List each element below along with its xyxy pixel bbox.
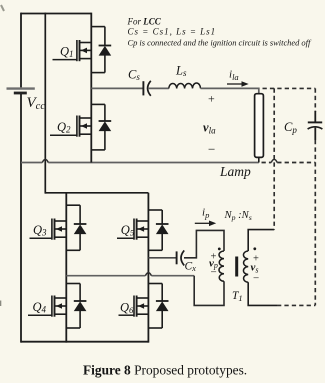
transistor Q1 bbox=[53, 40, 92, 61]
svg-text:−: − bbox=[253, 272, 259, 284]
wire top rail bbox=[21, 13, 91, 15]
svg-text:Cp is connected and the igniti: Cp is connected and the ignition circuit… bbox=[128, 37, 312, 47]
transistor Q2 bbox=[50, 116, 91, 137]
wire hop (ground over bus) bbox=[42, 159, 48, 162]
diode D5 (body diode of Q5) bbox=[148, 210, 168, 250]
wire transformer secondary bottom bbox=[248, 282, 277, 305]
dashed wire lamp-bottom to Cp branch with hop bbox=[262, 162, 316, 164]
wire ground rail y=162.5 bbox=[21, 162, 259, 164]
diode D2 (body diode of Q2) bbox=[91, 104, 111, 149]
svg-text:−: − bbox=[211, 267, 217, 279]
svg-text:Lamp: Lamp bbox=[219, 164, 251, 179]
transformer T1 primary winding bbox=[219, 251, 224, 281]
wire bottom rail bbox=[21, 341, 148, 343]
svg-text:Np :Ns: Np :Ns bbox=[224, 210, 252, 222]
wire half-bridge rail x=91 bbox=[90, 13, 92, 163]
svg-text:Figure 8 Proposed prototypes.: Figure 8 Proposed prototypes. bbox=[83, 363, 247, 378]
wire left battery rail upper bbox=[20, 13, 22, 88]
node dot secondary polarity bbox=[253, 247, 256, 250]
capacitor Cs bbox=[142, 81, 144, 95]
wire lamp bottom stub bbox=[258, 157, 260, 162]
wire transformer secondary top bbox=[248, 230, 274, 251]
wire hop (mid wire over Q5/Q6 rail) bbox=[145, 273, 151, 276]
transistor Q6 bbox=[119, 296, 149, 317]
wire bridge output (left leg midpoint) bbox=[66, 275, 194, 277]
transistor Q5 bbox=[117, 219, 148, 240]
wire bus vertical x=45 bbox=[44, 13, 46, 194]
transistor Q4 bbox=[28, 296, 66, 317]
transistor Q3 bbox=[30, 219, 67, 240]
wire Ls to lamp bbox=[201, 88, 259, 93]
dashed wire ignition right vertical bbox=[314, 88, 316, 112]
svg-text:Cs = Cs1, Ls = Ls1: Cs = Cs1, Ls = Ls1 bbox=[128, 27, 217, 37]
dashed wire ignition left vertical bbox=[273, 88, 275, 229]
wire Q3/Q4 leg rail bbox=[65, 193, 67, 343]
battery Vcc long plate bbox=[7, 87, 35, 89]
diode D6 (body diode of Q6) bbox=[148, 284, 168, 329]
scan artifact left edge bbox=[0, 301, 2, 307]
transformer T1 secondary winding bbox=[243, 251, 248, 282]
transformer T1 core bbox=[235, 257, 238, 277]
svg-text:For LCC: For LCC bbox=[127, 17, 162, 27]
battery Vcc short plate bbox=[14, 92, 27, 95]
diode D4 (body diode of Q4) bbox=[66, 284, 86, 329]
wire half-bridge midpoint to Cs bbox=[91, 87, 143, 89]
svg-text:Cx: Cx bbox=[185, 261, 197, 274]
wire Cx to transformer primary top bbox=[184, 230, 224, 257]
diode D3 (body diode of Q3) bbox=[66, 205, 86, 250]
lamp body bbox=[255, 94, 264, 158]
capacitor Cx bbox=[176, 251, 178, 264]
wire left rail lower (battery minus down to bottom rail) bbox=[20, 94, 22, 343]
wire Q5/Q6 leg rail bbox=[147, 193, 149, 343]
capacitor Cp bbox=[308, 121, 322, 123]
dashed wire ignition top bbox=[263, 87, 316, 89]
svg-text:−: − bbox=[208, 142, 215, 157]
svg-text:T1: T1 bbox=[232, 290, 243, 303]
inductor Ls bbox=[169, 83, 201, 88]
wire to transformer primary bottom bbox=[194, 276, 224, 306]
wire Q5 midpoint to Cx bbox=[148, 257, 176, 259]
dashed wire ignition bottom bbox=[277, 304, 315, 306]
node dot primary polarity bbox=[218, 248, 221, 251]
diode D1 (body diode of Q1) bbox=[91, 27, 111, 73]
wire Cs to Ls bbox=[148, 87, 169, 89]
wire lower-bridge top rail bbox=[45, 192, 148, 194]
scan artifact top-left bbox=[1, 5, 4, 11]
svg-text:+: + bbox=[208, 92, 215, 106]
